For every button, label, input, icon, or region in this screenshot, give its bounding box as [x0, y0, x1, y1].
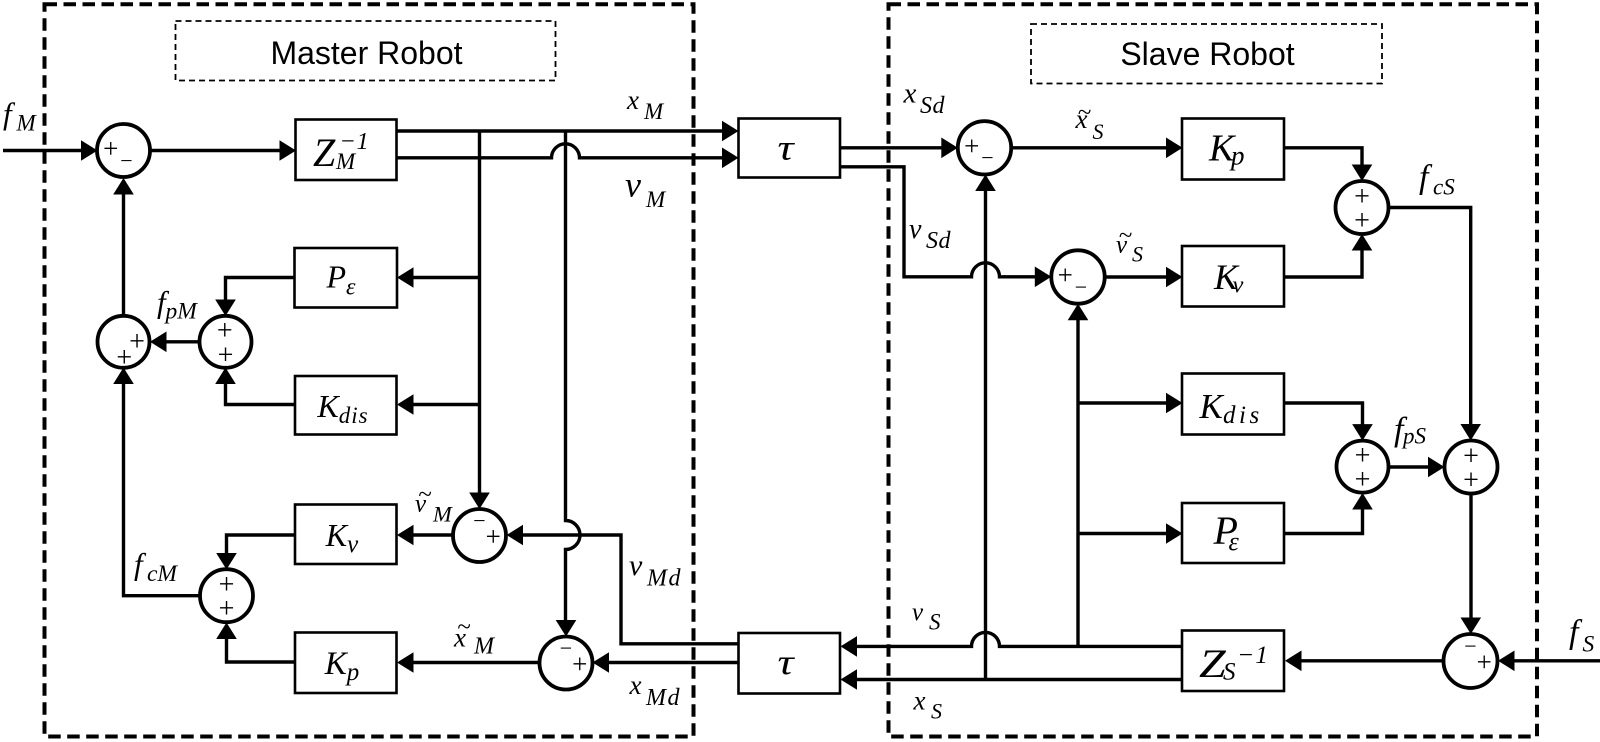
wire right adder output down to f_S sum [1469, 494, 1472, 619]
arrow into f_cS sum top [1352, 165, 1373, 182]
svg-text:τ: τ [777, 642, 795, 682]
svg-text:~: ~ [457, 614, 471, 641]
wire x_M line (Z_M to tau) [397, 129, 724, 132]
block K_p (master) [295, 633, 397, 694]
arrow into sum S1 [81, 140, 98, 161]
summing junction right adder [1445, 441, 1498, 494]
summing junction f_cS [1336, 181, 1389, 234]
svg-text:pM: pM [164, 299, 199, 325]
arrow into xtilde_S sum bottom [975, 175, 996, 192]
wire v_S feedback vertical (x=1078) [1076, 319, 1079, 646]
arrow x_S into tau-bottom [841, 669, 858, 690]
arrow into f_pM sum top [215, 300, 236, 317]
svg-text:x: x [913, 686, 926, 716]
arrow into Z_S right edge [1285, 651, 1302, 672]
arrow into f_S sum top [1461, 618, 1482, 635]
wire stub into P_eps (master) [412, 276, 480, 279]
wire f_S sum output to Z_S [1300, 659, 1444, 662]
arrow into f_cM sum bottom [216, 623, 237, 640]
arrow into right adder top [1460, 424, 1481, 441]
svg-text:x: x [629, 670, 642, 700]
wire K_v output to f_cM sum [227, 535, 296, 554]
wire v_M line with hop over x_M tap [397, 144, 724, 158]
svg-text:S: S [929, 610, 941, 635]
block K_dis (slave) [1182, 374, 1284, 435]
wire f_cM output left and up to SL [124, 383, 201, 596]
wire f_cS output to right adder [1389, 208, 1471, 426]
svg-text:S: S [1223, 659, 1236, 686]
wire vtilde_S sum to K_v (slave) [1105, 275, 1167, 278]
wire vertical tap A (x=479.5) down to vtilde_M sum [478, 131, 481, 494]
summing junction f_pS [1337, 441, 1389, 493]
arrow into K_v slave left [1166, 267, 1183, 288]
arrow into right adder left [1428, 457, 1445, 478]
svg-text:Slave Robot: Slave Robot [1120, 36, 1294, 72]
wire x_S line from Z_S to tau-bottom [856, 678, 1182, 681]
summing junction vtilde_S [1051, 250, 1104, 303]
summing junction xtilde_S [958, 121, 1011, 174]
arrow into S1 bottom [113, 178, 134, 195]
svg-text:+: + [219, 594, 235, 625]
arrow into SL bottom [113, 368, 134, 385]
svg-text:M: M [473, 633, 496, 659]
svg-text:M: M [645, 187, 667, 212]
arrow into K_v right edge [397, 525, 414, 546]
arrow v_S into tau-bottom [841, 636, 858, 657]
svg-text:S: S [1093, 119, 1104, 144]
svg-text:S: S [931, 699, 942, 724]
svg-text:+: + [218, 340, 234, 371]
svg-text:ε: ε [1229, 527, 1240, 556]
svg-text:x: x [626, 85, 639, 115]
svg-text:v: v [1233, 272, 1244, 299]
arrow into xtilde_S sum left [941, 138, 958, 159]
svg-text:S: S [1583, 632, 1595, 658]
arrow into left sum right [150, 332, 167, 353]
wire SL output up to S1 [122, 194, 125, 316]
wire x_S feedback vertical (x=985.5) [984, 190, 987, 680]
summing junction xtilde_M [540, 637, 593, 690]
wire f_S input from right [1513, 659, 1600, 662]
arrow into vtilde_M sum top [469, 493, 490, 510]
svg-text:x: x [903, 78, 917, 110]
svg-text:−1: −1 [1237, 640, 1269, 669]
arrow into K_dis slave left [1166, 393, 1183, 414]
arrow into f_pS sum bottom [1352, 493, 1373, 510]
svg-text:τ: τ [777, 128, 795, 168]
wire xtilde_S sum to K_p (slave) [1011, 146, 1167, 149]
wire x_Md from tau-bottom to xtilde_M sum [608, 661, 738, 664]
block P_eps (master) [295, 248, 398, 308]
svg-text:Md: Md [645, 685, 681, 711]
block Z_M^-1 [296, 120, 397, 181]
svg-text:−: − [473, 508, 485, 533]
wire f_M input [3, 149, 82, 152]
arrow into xtilde_M sum right [593, 652, 610, 673]
wire K_dis slave output to f_pS sum [1284, 403, 1363, 425]
wire f_pS sum to right adder [1389, 465, 1430, 468]
svg-text:+: + [103, 134, 118, 164]
summing junction vtilde_M [453, 509, 506, 562]
svg-text:−1: −1 [340, 128, 370, 155]
svg-text:pS: pS [1401, 424, 1427, 449]
svg-text:−: − [1075, 274, 1087, 299]
svg-text:+: + [964, 131, 979, 161]
wire P_eps output to f_pM sum [226, 278, 295, 302]
arrow x_M into tau [722, 121, 739, 142]
summing junction SL (left adder) [98, 316, 150, 368]
svg-text:+: + [116, 342, 132, 373]
summing junction f_cM [200, 569, 253, 622]
svg-text:−: − [560, 635, 572, 660]
svg-text:−: − [1464, 633, 1476, 658]
svg-text:cM: cM [147, 561, 178, 587]
block K_p (slave) [1182, 119, 1284, 180]
svg-text:~: ~ [1078, 99, 1092, 126]
svg-text:M: M [432, 502, 453, 527]
wire vtilde_M sum to K_v [412, 533, 453, 536]
svg-text:+: + [1354, 206, 1370, 237]
wire stub into K_dis (slave) [1078, 401, 1167, 404]
arrow into vtilde_M sum right [507, 525, 524, 546]
arrow into vtilde_S sum left [1035, 267, 1052, 288]
slave robot title box [1031, 24, 1382, 84]
svg-text:M: M [16, 111, 38, 136]
svg-text:v: v [909, 214, 922, 245]
summing junction S1 (f_M) [97, 124, 150, 177]
block tau (bottom channel) [739, 633, 841, 694]
svg-text:+: + [1355, 465, 1371, 496]
svg-text:+: + [572, 649, 587, 679]
svg-text:p: p [1229, 141, 1245, 171]
svg-text:Master Robot: Master Robot [270, 35, 462, 71]
wire P_eps slave output to f_pS sum [1284, 509, 1363, 534]
arrow into Z_M [280, 140, 297, 161]
block tau (top channel) [739, 119, 841, 178]
arrow into P_eps right edge [397, 267, 414, 288]
svg-text:+: + [1058, 260, 1073, 290]
svg-text:+: + [1463, 465, 1479, 496]
arrow into f_cM sum top [216, 553, 237, 570]
svg-text:Z: Z [313, 130, 336, 175]
wire f_pM sum to left sum [165, 340, 200, 343]
arrow into vtilde_S sum bottom [1068, 304, 1089, 321]
svg-text:v: v [912, 599, 924, 626]
wire tau upper output to xtilde_S sum [840, 146, 942, 149]
arrow v_M into tau [722, 148, 739, 169]
block P_eps (slave) [1182, 503, 1284, 563]
arrow into f_pS sum top [1352, 424, 1373, 441]
summing junction f_pM [200, 316, 252, 368]
master robot dashed boundary box [45, 4, 694, 736]
arrow into P_eps slave left [1166, 523, 1183, 544]
wire K_v slave output to f_cS sum [1284, 250, 1362, 278]
svg-text:S: S [1132, 242, 1143, 267]
summing junction f_S [1444, 634, 1498, 688]
arrow into K_p slave left [1166, 138, 1183, 159]
svg-text:~: ~ [418, 481, 432, 508]
svg-text:+: + [486, 521, 501, 551]
wire S1 to Z_M block [150, 149, 280, 152]
arrow into xtilde_M sum top [556, 620, 577, 637]
block K_dis (master) [295, 376, 397, 435]
wire stub into K_dis (master) [412, 403, 480, 406]
wire stub into P_eps (slave) [1078, 532, 1167, 535]
svg-text:Sd: Sd [920, 93, 946, 119]
wire vertical tap B (x=565.5) with hop over v_Md line, down to xtilde_M sum [566, 131, 581, 620]
arrow into K_p right edge [397, 652, 414, 673]
wire K_p slave output to f_cS sum [1284, 148, 1362, 166]
svg-text:dis: dis [1223, 402, 1263, 429]
svg-text:+: + [1477, 647, 1492, 677]
slave robot dashed boundary box [889, 4, 1538, 736]
block Z_S^-1 [1182, 631, 1284, 692]
svg-text:Md: Md [646, 566, 682, 592]
svg-text:−: − [120, 148, 132, 173]
svg-text:~: ~ [1119, 222, 1133, 249]
wire K_dis output to f_pM sum [226, 383, 296, 405]
svg-text:Sd: Sd [926, 228, 952, 254]
svg-text:K: K [1199, 387, 1225, 426]
svg-text:M: M [643, 99, 665, 124]
block K_v (master) [295, 505, 397, 565]
wire K_p output to f_cM sum [227, 638, 296, 662]
svg-text:−: − [981, 145, 993, 170]
svg-text:cS: cS [1433, 175, 1455, 200]
arrow into K_dis right edge [397, 394, 414, 415]
wire v_Sd path from tau to vtilde_S sum with hop [840, 167, 1036, 277]
master robot title box [176, 21, 556, 81]
arrow into f_cS sum bottom [1352, 234, 1373, 251]
svg-text:v: v [625, 165, 641, 205]
block K_v (slave) [1182, 246, 1284, 307]
wire v_Md path from tau-bottom to vtilde_M sum [522, 535, 738, 644]
arrow into f_S sum right [1498, 651, 1515, 672]
arrow into f_pM sum bottom [215, 368, 236, 385]
wire xtilde_M sum to K_p [412, 661, 540, 664]
svg-text:v: v [629, 549, 643, 582]
wire v_S line from Z_S to tau-bottom with hop [856, 632, 1182, 646]
